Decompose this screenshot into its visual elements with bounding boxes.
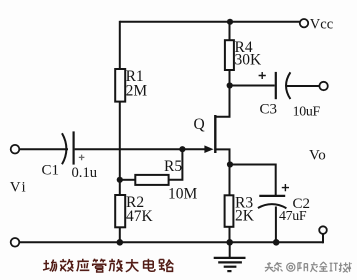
capacitor C2 <box>259 195 285 197</box>
wire source node down to R3 <box>229 165 231 196</box>
wire up to Vo terminal <box>322 234 324 244</box>
svg-text:0.1u: 0.1u <box>72 165 98 181</box>
wire left branch vertical (R1/R2 column) <box>119 21 121 69</box>
wire C1 to gate (crosses R1/R2 column) <box>75 148 206 150</box>
title 场效应管放大电路 (red, drawn glyphs) <box>43 259 174 272</box>
场 <box>43 260 57 272</box>
node source junction <box>227 161 233 167</box>
node top rail / R4 <box>227 19 233 25</box>
Q channel bar <box>214 115 216 153</box>
resistor R5 feedback branch <box>120 179 136 181</box>
wire Vi to C1 <box>19 148 68 150</box>
svg-text:Vcc: Vcc <box>310 16 333 32</box>
大 <box>126 259 139 272</box>
条 <box>273 262 282 272</box>
svg-text:47uF: 47uF <box>279 209 307 224</box>
svg-text:10M: 10M <box>168 186 198 203</box>
电 <box>144 259 155 271</box>
ground symbol <box>229 242 231 257</box>
svg-text:10uF: 10uF <box>293 104 321 119</box>
watermark 头条 @卧龙全IT技术 (gray, drawn glyphs) <box>265 262 352 272</box>
svg-text:C3: C3 <box>260 102 278 118</box>
plus of C2 <box>282 184 289 191</box>
node R5 left junction <box>117 177 123 183</box>
应 <box>77 259 90 272</box>
resistor R3 <box>225 195 234 227</box>
svg-text:Vo: Vo <box>309 148 326 164</box>
resistor R1 <box>115 69 125 102</box>
wire ground rail <box>19 241 323 243</box>
效 <box>60 259 73 271</box>
svg-text:47K: 47K <box>126 208 154 225</box>
capacitor C1 <box>62 133 66 164</box>
@ <box>287 263 295 271</box>
Q source lead <box>216 148 230 164</box>
wire drain node to C3 <box>230 85 275 87</box>
技 <box>339 262 348 272</box>
terminal C3 output <box>319 82 327 90</box>
terminal bottom left <box>11 238 20 247</box>
svg-text:2M: 2M <box>126 83 148 100</box>
wire top rail Vcc <box>120 21 300 23</box>
wire C2 bottom to ground rail <box>275 207 277 243</box>
术 <box>348 262 351 272</box>
wire R1 bottom to R2 top <box>119 102 121 195</box>
terminal Vo <box>319 226 327 234</box>
头 <box>265 263 273 272</box>
龙 <box>310 262 317 272</box>
node drain / C3 junction <box>227 82 233 88</box>
node ground rail / R3 ground stem <box>226 239 233 246</box>
resistor R2 <box>115 195 125 227</box>
capacitor C3 <box>275 72 277 99</box>
wire R5 right to gate wire <box>169 149 183 181</box>
管 <box>93 259 106 272</box>
resistor R4 <box>225 40 234 70</box>
wire R3 bottom to ground rail <box>229 227 231 243</box>
node ground rail / R2 <box>117 239 124 246</box>
全 <box>319 262 327 271</box>
plus of C1 <box>79 155 85 161</box>
terminal input Vi <box>11 145 20 154</box>
T <box>334 263 338 271</box>
I <box>330 263 333 271</box>
Q drain lead <box>215 86 230 118</box>
svg-text:2K: 2K <box>235 207 255 224</box>
svg-text:Vi: Vi <box>10 180 28 196</box>
svg-text:Q: Q <box>194 116 205 133</box>
svg-text:R5: R5 <box>164 158 182 175</box>
wire source node to C2 branch <box>230 164 276 196</box>
plus of C3 <box>259 72 266 79</box>
svg-text:C1: C1 <box>42 163 60 179</box>
wire top rail to R4 <box>229 22 231 40</box>
svg-text:30K: 30K <box>235 52 263 69</box>
terminal Vcc <box>300 19 308 27</box>
wire C3 to output terminal <box>287 85 320 87</box>
wire R2 bottom to ground rail <box>119 227 121 242</box>
node ground rail / C2 <box>273 239 280 246</box>
wire R4 bottom to drain node <box>229 70 231 86</box>
卧 <box>298 263 308 272</box>
Q gate arrow <box>204 145 213 153</box>
放 <box>109 259 122 272</box>
node gate/R5 junction <box>179 146 185 152</box>
